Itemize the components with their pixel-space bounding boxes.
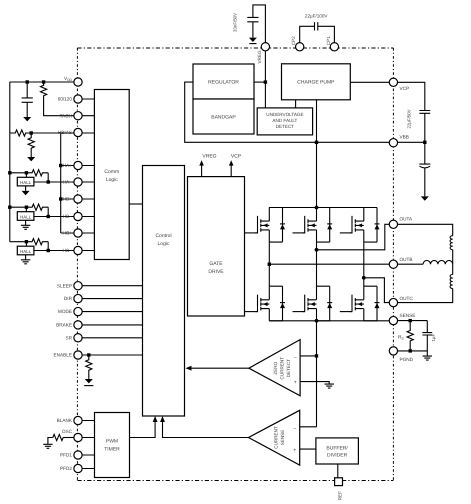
pin SR (74, 334, 82, 342)
svg-text:BANDGAP: BANDGAP (211, 115, 236, 121)
svg-text:BRAKE: BRAKE (56, 323, 72, 328)
svg-text:60/120: 60/120 (58, 97, 73, 102)
wire bridge bottom rail (SENSE) (269, 320, 393, 322)
junction VDD rail / C bypass (26, 80, 29, 83)
junction HALL2 output (47, 215, 50, 218)
transistor Q5 (B low) with body diode (303, 286, 333, 321)
junction HBIAS divider (30, 131, 33, 134)
ground (arrow) below VDD bypass cap (23, 117, 31, 121)
pin HC- (74, 246, 82, 254)
pin ENABLE (74, 351, 82, 359)
svg-text:VBB: VBB (400, 135, 409, 140)
junction bottom rail / sense column (315, 319, 319, 323)
wire BRAKE to Control Logic (74, 324, 143, 326)
wire ZCD output to control logic (188, 367, 249, 369)
capacitor VBB bulk (polarized) (419, 142, 430, 196)
wire VDD rail (10, 81, 74, 83)
svg-text:1µF: 1µF (431, 334, 436, 342)
wire rail to HALL1 supply (10, 172, 27, 174)
capacitor 33nF/50V (VREG bypass) (247, 5, 265, 47)
junction sense column / zero current detect (315, 354, 318, 357)
svg-text:VCP: VCP (400, 86, 410, 91)
svg-text:HC+: HC+ (62, 231, 72, 236)
pin PFD2 (74, 464, 82, 472)
junction H+ bus / HA+ (59, 164, 62, 167)
resistor Rs (407, 321, 413, 351)
svg-text:HA+: HA+ (63, 163, 73, 168)
svg-text:UNDERVOLTAGE: UNDERVOLTAGE (266, 112, 303, 117)
wire phase column A (mid) (316, 242, 318, 286)
wire OUTA to motor (393, 224, 452, 235)
svg-text:TIMER: TIMER (104, 446, 120, 452)
resistor HALL2 output pull-up (26, 204, 48, 210)
svg-text:33nF/50V: 33nF/50V (233, 13, 238, 32)
wire rail to HALL3 supply (10, 241, 27, 243)
wire HALL2 supply stub (25, 207, 27, 212)
pin CP1 (330, 43, 338, 51)
svg-text:GATE: GATE (209, 261, 223, 267)
resistor ENABLE pull-down (86, 355, 92, 375)
svg-text:Control: Control (155, 233, 171, 239)
wire charge pump output to bridge supply (316, 100, 318, 208)
junction bridge top rail (315, 206, 319, 210)
pin TACH (74, 112, 82, 120)
block Undervoltage and Fault Detect (257, 108, 312, 135)
pin OSC (74, 433, 82, 441)
wire HALL3 output to pin (34, 250, 95, 252)
transistor Q1 (A high) with body diode (255, 208, 285, 243)
svg-text:HALL: HALL (20, 214, 32, 219)
svg-text:HALL: HALL (20, 180, 32, 185)
pin HB+ (74, 195, 82, 203)
transistor Q4 (A low) with body diode (255, 286, 285, 321)
wire SENSE to Rs and filter (393, 320, 427, 322)
svg-text:22µF/50V: 22µF/50V (406, 109, 411, 128)
wire TACH pull-up to TACH net (44, 99, 74, 116)
wire sense column to comparators (316, 321, 318, 427)
svg-text:CP2: CP2 (291, 36, 296, 45)
wire SLEEP to Control Logic (74, 285, 143, 287)
block Control Logic (143, 166, 185, 417)
wire PFD2 stub (74, 468, 95, 470)
ground below sense cap (423, 356, 432, 360)
wire current-sense + input to buffer (300, 448, 316, 450)
pin VREG (261, 43, 269, 51)
junction OUTB (268, 263, 271, 266)
svg-text:DETECT: DETECT (276, 124, 295, 129)
resistor HBIAS lower (to ground) (28, 133, 34, 153)
block Bandgap (193, 99, 254, 134)
wire gate drive to Q1 gate (245, 232, 258, 234)
wire BLANK stub (74, 421, 95, 422)
wire gate drive to Q4 gate (245, 311, 258, 313)
junction HALL2 supply (25, 206, 28, 209)
svg-text:CHARGE PUMP: CHARGE PUMP (297, 80, 335, 86)
pin REF (square pad) (335, 478, 343, 486)
svg-text:MODE: MODE (58, 309, 72, 314)
hall sensor HALL3 (17, 246, 34, 255)
svg-text:PWM: PWM (106, 438, 118, 444)
svg-text:HB−: HB− (63, 214, 73, 219)
wire OUTC net (364, 278, 394, 303)
resistor TACH pull-up (41, 82, 47, 99)
wire HALL1 output to pin (34, 181, 95, 183)
svg-text:ZERO: ZERO (273, 361, 278, 374)
wire DIR to Control Logic (74, 298, 143, 300)
hall sensor HALL1 (17, 177, 34, 186)
junction VBB rail / bridge supply (315, 141, 318, 144)
pin MODE (74, 307, 82, 315)
pin BLANK (74, 416, 82, 424)
svg-text:REGULATOR: REGULATOR (208, 80, 239, 86)
op-amp ZERO CURRENT DETECT (249, 340, 300, 396)
wire pull-up1 to output (47, 173, 49, 182)
svg-text:CP1: CP1 (326, 36, 331, 45)
wire phase column B (left) (268, 242, 270, 286)
junction VBB rail / reservoir cap (423, 141, 426, 144)
wire HC+ row (61, 232, 95, 234)
block Gate Drive (188, 177, 245, 316)
pin 60/120 (74, 95, 82, 103)
wire HBIAS node to pin (31, 132, 94, 134)
wire OSC resistor to ground (48, 438, 53, 445)
wire HA+ row (61, 165, 95, 167)
junction ENABLE pulldown (87, 353, 90, 356)
svg-text:DETECT: DETECT (286, 359, 291, 378)
arrow into control logic bottom (CS) (160, 416, 165, 422)
current sense amp triangle (249, 410, 300, 465)
pin VDD (74, 78, 82, 86)
wire left supply rail (9, 82, 11, 242)
pin CP2 (296, 43, 304, 51)
wire Comm Logic to Control Logic (129, 203, 142, 205)
pin SENSE (389, 316, 397, 324)
ground below HALL2 (25, 220, 27, 225)
ground (arrow) below VBB cap (421, 196, 429, 200)
wire H+ reference bus (HBIAS to HA+/HB+/HC+) (60, 133, 62, 233)
wire TACH stub (74, 115, 94, 117)
wire winding C to OUTC (393, 289, 452, 303)
junction HALL3 supply (25, 240, 28, 243)
block PWM Timer (95, 413, 130, 478)
svg-text:HBIAS: HBIAS (58, 130, 72, 135)
wire HALL2 output to pin (34, 216, 95, 218)
svg-text:VCP: VCP (231, 154, 242, 160)
wire gate lead Q2 (B high) (293, 232, 305, 234)
wire HALL1 supply stub (25, 173, 27, 178)
wire PGND to Rs bottom (393, 350, 427, 352)
capacitor sense filter 1uF (422, 321, 432, 357)
svg-text:−: − (294, 355, 297, 361)
supply arrow VCP into gate drive (230, 163, 232, 177)
pin OUTA (389, 220, 397, 228)
ground (arrow) below HBIAS divider (27, 157, 35, 161)
junction HALL1 output (47, 180, 50, 183)
junction VDD rail / TACH pullup (42, 80, 45, 83)
svg-text:Logic: Logic (158, 241, 170, 247)
resistor HALL3 output pull-up (26, 239, 48, 245)
wire rail to HALL2 supply (10, 206, 27, 208)
wire buffer to REF pad (337, 464, 339, 478)
svg-text:OSC: OSC (62, 429, 73, 434)
wire VREG pin to regulator junction and UV detect (264, 47, 266, 108)
svg-text:CURRENT: CURRENT (280, 357, 285, 380)
svg-text:TACH: TACH (60, 113, 72, 118)
hall sensor HALL2 (17, 212, 34, 221)
wire phase column C (right) (363, 242, 365, 286)
svg-text:REF: REF (337, 491, 342, 500)
ground below OSC resistor (43, 444, 52, 448)
resistor OSC (to ground) (63, 437, 74, 439)
transistor Q3 (C high) with body diode (350, 208, 380, 243)
capacitor C (VDD bypass) (22, 82, 33, 117)
pin HA- (74, 178, 82, 186)
wire OUTA net (317, 224, 394, 250)
pin DIR (74, 294, 82, 302)
svg-text:CURRENT: CURRENT (274, 426, 279, 449)
block Buffer/Divider (316, 438, 359, 464)
wire zero-current-detect - input (300, 355, 316, 357)
block Comm Logic (94, 90, 129, 260)
svg-text:PFD1: PFD1 (60, 453, 72, 458)
svg-text:Comm: Comm (104, 169, 119, 175)
wire SR to Control Logic (74, 337, 143, 339)
junction SENSE / Rs (409, 319, 412, 322)
svg-text:BLANK: BLANK (57, 418, 73, 423)
pin SLEEP (74, 282, 82, 290)
wire charge pump to UV detect (295, 100, 297, 108)
svg-text:HALL: HALL (20, 249, 32, 254)
junction HALL1 supply (25, 171, 28, 174)
svg-text:+: + (294, 379, 297, 385)
resistor HBIAS upper (from rail) (10, 130, 31, 136)
wire winding A to star point (452, 250, 454, 275)
inductor phase B winding (423, 261, 453, 265)
inductor phase C winding (450, 275, 453, 289)
wire VBB feed loop (regulator supply / VBB rail) (185, 82, 425, 142)
resistor HALL1 output pull-up (26, 170, 48, 176)
wire OUTB to winding B (393, 263, 423, 265)
svg-text:DIR: DIR (64, 296, 73, 301)
supply arrow VREG into gate drive (201, 163, 203, 177)
wire HB+ row (61, 198, 95, 200)
pin PFD1 (74, 451, 82, 459)
wire pull-up3 to output (47, 242, 49, 251)
wire MODE to Control Logic (74, 311, 143, 313)
arrow into control logic (ZCD) (186, 366, 192, 371)
svg-text:AND FAULT: AND FAULT (272, 118, 297, 123)
svg-text:ENABLE: ENABLE (54, 353, 73, 358)
ground below HALL3 (25, 255, 27, 260)
svg-text:SENSE: SENSE (400, 313, 416, 318)
wire PWM timer output to control logic (130, 418, 156, 438)
ground below VREG cap (249, 38, 257, 42)
wire PFD1 stub (74, 454, 95, 456)
svg-text:DIVIDER: DIVIDER (327, 452, 348, 458)
wire gate lead Q5 (B low) (293, 311, 305, 313)
junction H+ bus / HB+ (59, 197, 62, 200)
wire HALL3 supply stub (25, 242, 27, 247)
svg-text:SR: SR (65, 335, 72, 340)
pin VCP (389, 78, 397, 86)
svg-text:OUTA: OUTA (400, 217, 414, 222)
ground (arrow) below ENABLE resistor (85, 379, 93, 383)
junction rail / hall2 row (8, 206, 11, 209)
svg-text:PFD2: PFD2 (60, 466, 72, 471)
wire OSC stub (74, 437, 95, 439)
svg-text:+: + (293, 447, 296, 453)
pin OUTB (389, 260, 397, 268)
pin HA+ (74, 161, 82, 169)
pin OUTC (389, 298, 397, 306)
inductor phase A winding (450, 236, 453, 250)
junction OUTC (362, 276, 366, 280)
svg-text:HA−: HA− (63, 180, 73, 185)
svg-text:HC−: HC− (62, 248, 72, 253)
wire current sense output to control logic (163, 418, 249, 438)
pin HBIAS (74, 128, 82, 136)
capacitor 22uF/50V (VCP reservoir) (393, 82, 430, 142)
wire gate lead Q3 (C high) (340, 232, 352, 234)
svg-text:22µF/100V: 22µF/100V (305, 14, 329, 19)
transistor Q6 (C low) with body diode (350, 286, 380, 321)
ground below HALL1 (25, 186, 27, 191)
pin HC+ (74, 229, 82, 237)
svg-text:PGND: PGND (400, 357, 414, 362)
junction HALL3 output (47, 249, 50, 252)
pin BRAKE (74, 321, 82, 329)
wire charge pump to VCP pin (350, 81, 393, 83)
wire ENABLE to Control Logic (74, 354, 143, 356)
svg-text:SENSE: SENSE (280, 430, 285, 446)
svg-text:HB+: HB+ (63, 197, 73, 202)
svg-text:SLEEP: SLEEP (57, 283, 72, 288)
capacitor 22uF/100V (charge pump) (300, 22, 335, 47)
junction VREG / regulator output (264, 80, 267, 83)
wire OUTB net (269, 263, 393, 265)
wire regulator to VREG node (254, 81, 265, 83)
arrow into control logic bottom (PWM) (153, 416, 158, 422)
pin HB- (74, 212, 82, 220)
chip boundary (dashed) (77, 48, 393, 481)
wire 60/120 stub (74, 98, 94, 100)
svg-text:Logic: Logic (106, 177, 118, 183)
op-amp CURRENT SENSE (300, 426, 317, 428)
svg-text:VREG: VREG (202, 154, 216, 160)
pin VBB (389, 139, 397, 147)
junction PGND / Rs (409, 349, 412, 352)
wire bridge top rail (VBB) (269, 207, 377, 209)
transistor Q2 (B high) with body diode (303, 208, 333, 243)
junction rail / hall1 row (8, 171, 11, 174)
ground at ZCD + input (325, 384, 334, 388)
svg-text:−: − (293, 426, 296, 432)
pin PGND (389, 347, 397, 355)
wire zero-current-detect + input to ground (300, 382, 329, 385)
wire pull-up2 to output (47, 207, 49, 216)
block Regulator (193, 64, 254, 99)
wire gate lead Q6 (C low) (340, 311, 352, 313)
svg-text:BUFFER/: BUFFER/ (326, 445, 348, 451)
svg-text:OUTC: OUTC (400, 296, 414, 301)
svg-text:OUTB: OUTB (400, 257, 413, 262)
svg-text:VREG: VREG (257, 50, 262, 63)
svg-text:DRIVE: DRIVE (208, 269, 224, 275)
junction OUTA (315, 248, 319, 252)
block Charge Pump (282, 64, 351, 100)
